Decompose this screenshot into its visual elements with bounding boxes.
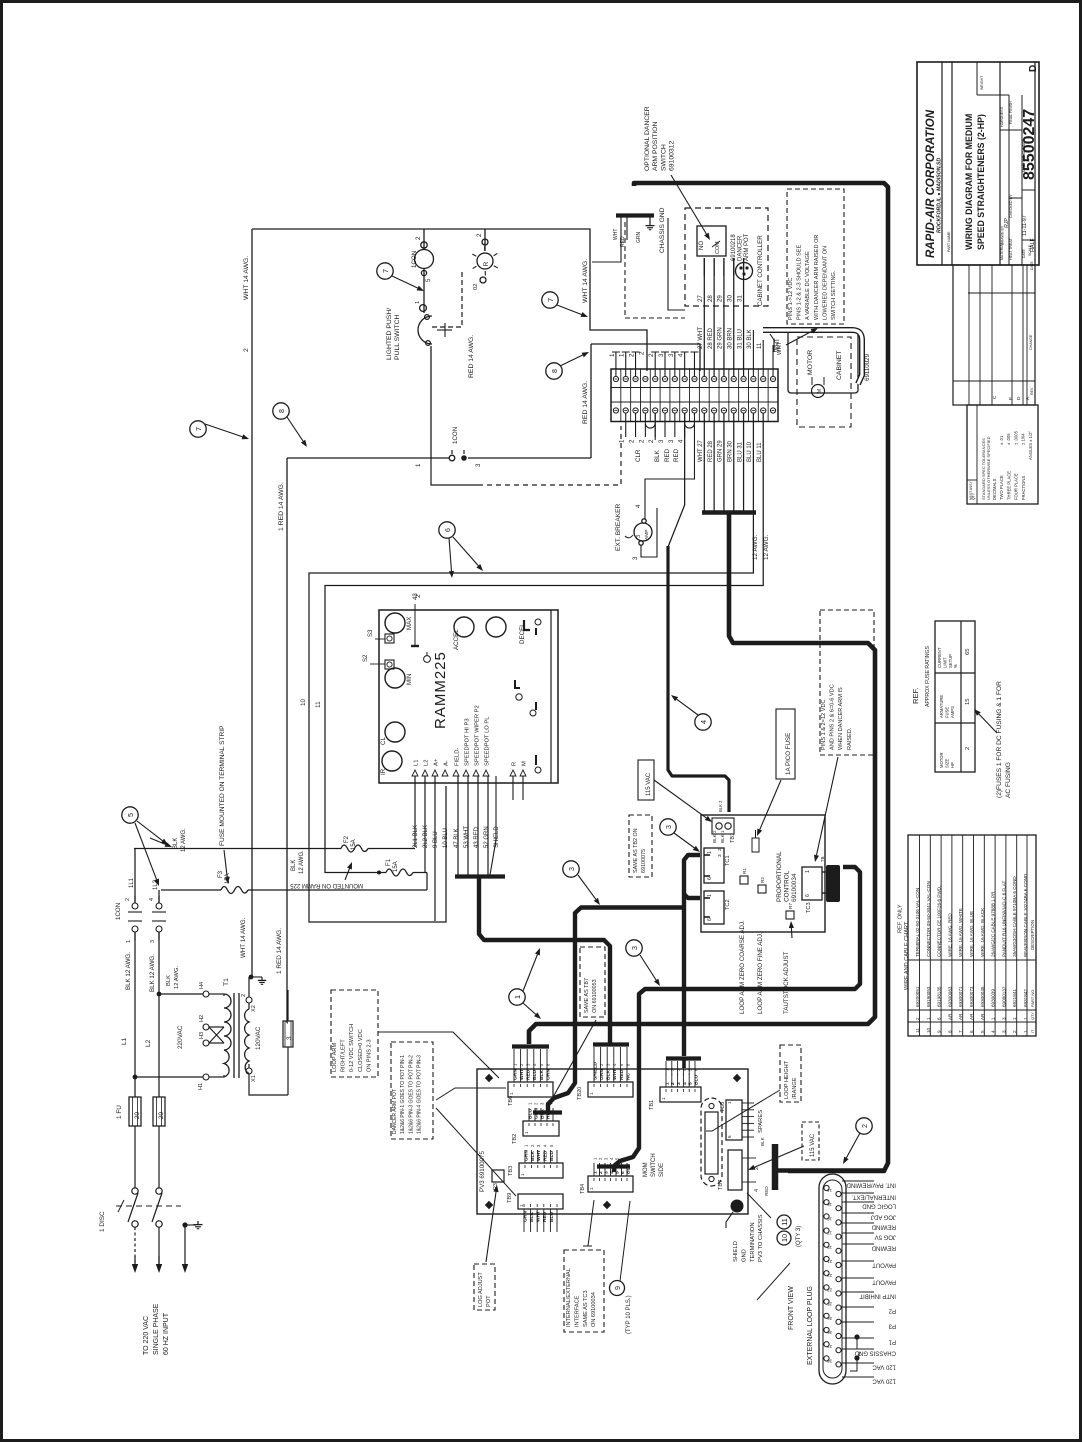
connector TC1 <box>704 848 724 883</box>
svg-text:3: 3 <box>567 867 576 871</box>
dashed line chassis to cabinet box <box>625 222 685 318</box>
svg-text:OPTIONAL DANCER: OPTIONAL DANCER <box>644 106 651 171</box>
svg-text:120 VAC: 120 VAC <box>872 1364 896 1370</box>
svg-text:PINS 1->12 VDC: PINS 1->12 VDC <box>788 278 794 320</box>
leader TB7 to balloons <box>747 1193 771 1218</box>
svg-text:SINGLE PHASE: SINGLE PHASE <box>153 1303 160 1355</box>
fuse holder on prop control <box>752 838 759 852</box>
resistor R7 on prop control <box>786 911 794 919</box>
svg-text:DESCRIPTION: DESCRIPTION <box>1030 920 1035 950</box>
svg-text:14: 14 <box>827 1188 832 1193</box>
svg-text:DATE: DATE <box>1030 260 1034 270</box>
wire RED from bus stub <box>626 217 628 240</box>
svg-text:BLK: BLK <box>530 1150 536 1161</box>
svg-text:1: 1 <box>707 894 713 897</box>
svg-text:RED 28: RED 28 <box>708 440 714 462</box>
cable chassis bus to motor/loop (right outer cable) <box>634 183 888 1171</box>
balloon 8 right <box>546 363 562 379</box>
cable shield run to TB20 <box>479 878 610 1043</box>
svg-text:BLU 31: BLU 31 <box>737 441 743 462</box>
terminal circles TS1 bottom row <box>613 408 618 413</box>
svg-text:2: 2 <box>629 353 636 357</box>
svg-text:M: M <box>817 388 823 393</box>
leader front view <box>757 1263 790 1300</box>
svg-text:BLK: BLK <box>654 449 661 462</box>
svg-text:GRN: GRN <box>523 1150 529 1161</box>
svg-text:MOTOR: MOTOR <box>807 350 814 375</box>
svg-text:1: 1 <box>609 353 616 357</box>
svg-text:ANGLES ± 1/2°: ANGLES ± 1/2° <box>1028 431 1033 460</box>
circuit breaker EXT BREAKER 3 AMP <box>634 523 652 541</box>
title block part name cell <box>951 62 953 265</box>
svg-text:EXT. BREAKER: EXT. BREAKER <box>615 503 622 551</box>
wires above terminal strip cols 1-9 <box>615 352 617 376</box>
svg-text:4: 4 <box>754 1189 760 1192</box>
svg-text:P2: P2 <box>888 1308 896 1314</box>
svg-text:TB1: TB1 <box>649 1100 655 1110</box>
dashed chassis tie from switch <box>431 458 478 485</box>
svg-text:5: 5 <box>425 278 432 282</box>
terminal block TB6 <box>508 1082 553 1097</box>
svg-text:1&2&6 PIN-4 GOES TO POT PIN-3: 1&2&6 PIN-4 GOES TO POT PIN-3 <box>417 1055 423 1134</box>
svg-text:TC3: TC3 <box>806 902 812 913</box>
motor cable from strip (tube) <box>763 330 862 384</box>
terminal block SPARES <box>726 1100 742 1140</box>
svg-text:TB3: TB3 <box>508 1166 514 1176</box>
dashed note box PINS 1->12 VDC <box>787 189 844 324</box>
arrow from note to F2 <box>345 869 349 880</box>
svg-text:1: 1 <box>805 870 811 873</box>
wire col10-14 down to cable bar <box>703 413 705 511</box>
svg-text:F1: F1 <box>386 858 392 866</box>
terminal TB1 on prop control <box>712 818 734 834</box>
svg-text:INTERNAL/EXTERNAL: INTERNAL/EXTERNAL <box>566 1268 572 1327</box>
svg-text:6: 6 <box>727 1135 732 1138</box>
svg-text:10 BLU: 10 BLU <box>443 828 449 848</box>
svg-text:A-: A- <box>444 760 450 766</box>
material heat-treat cells <box>999 62 1001 265</box>
loop plug pin holes and numbers <box>824 1185 829 1190</box>
svg-text:11-11-97: 11-11-97 <box>1022 215 1028 236</box>
svg-text:NC: NC <box>625 1072 631 1080</box>
svg-text:RED: RED <box>545 1108 551 1119</box>
svg-text:1L1: 1L1 <box>129 877 135 888</box>
svg-text:23: 23 <box>827 1287 832 1292</box>
svg-text:WHEN DANCER ARM IS: WHEN DANCER ARM IS <box>838 687 844 750</box>
svg-text:SIZE: SIZE <box>944 758 949 768</box>
svg-text:ON PINS 2-3: ON PINS 2-3 <box>366 1039 372 1072</box>
svg-text:8: 8 <box>277 409 286 413</box>
svg-text:SWITCH: SWITCH <box>660 144 667 171</box>
svg-text:SWITCH SETTING.: SWITCH SETTING. <box>831 270 837 320</box>
svg-text:WIRING DIAGRAM FOR MEDIUM: WIRING DIAGRAM FOR MEDIUM <box>964 114 974 250</box>
svg-text:REWIND: REWIND <box>871 1224 896 1230</box>
svg-text:± .0005: ± .0005 <box>1013 430 1018 445</box>
junction L2 to transformer H4 <box>157 992 162 997</box>
svg-text:1: 1 <box>520 1173 525 1176</box>
svg-text:BLU: BLU <box>549 1211 555 1222</box>
svg-text:CABINET: CABINET <box>836 351 843 380</box>
dashed note PINS 1&2=12VDC dancer <box>820 610 874 755</box>
motor enclosure box <box>788 331 858 393</box>
leader TB7-note to TB2 cable <box>550 1020 596 1102</box>
svg-text:(2)FUSES 1 FOR DC FUSING & 1 F: (2)FUSES 1 FOR DC FUSING & 1 FOR <box>996 681 1003 798</box>
svg-text:22: 22 <box>827 1273 832 1278</box>
loop plug pin leader lines and labels <box>842 1180 874 1182</box>
svg-text:1: 1 <box>661 1097 666 1100</box>
wire 11 to 2L2 with fuse F1 <box>325 872 386 874</box>
label 115 VAC boxed upper <box>638 760 654 800</box>
svg-text:H3: H3 <box>199 1032 205 1039</box>
svg-text:1L2: 1L2 <box>153 879 159 890</box>
svg-text:31 BLU: 31 BLU <box>737 329 743 349</box>
svg-text:LOOP HEIGHT: LOOP HEIGHT <box>784 1060 790 1099</box>
TC3 cable connector bar <box>826 865 840 902</box>
svg-text:R: R <box>512 762 518 766</box>
svg-text:D: D <box>1016 396 1022 400</box>
svg-text:WHT 14 AWG.: WHT 14 AWG. <box>243 256 250 300</box>
svg-text:9: 9 <box>613 1286 622 1290</box>
dashed link lamp R to switch <box>432 272 462 327</box>
svg-text:6: 6 <box>620 1171 626 1174</box>
svg-text:1: 1 <box>619 353 626 357</box>
balloon 3 lower <box>626 940 642 956</box>
svg-text:WHT 14 AWG.: WHT 14 AWG. <box>240 917 247 958</box>
svg-text:3: 3 <box>658 353 665 357</box>
shield ground dot <box>731 1200 744 1213</box>
svg-text:BLU: BLU <box>527 1108 533 1119</box>
balloon 5 with leaders <box>122 807 138 823</box>
svg-text:BLU: BLU <box>549 1150 555 1161</box>
svg-text:RED 14 AWG.: RED 14 AWG. <box>468 335 475 378</box>
loop plug bottom jumpers <box>854 1334 859 1339</box>
svg-text:IR: IR <box>380 768 387 775</box>
svg-text:CL: CL <box>380 737 387 745</box>
svg-text:1: 1 <box>519 1204 524 1207</box>
terminal block TB20 <box>588 1082 633 1097</box>
svg-text:1CON: 1CON <box>411 251 418 268</box>
svg-text:15A: 15A <box>351 839 357 850</box>
svg-text:ARM POT: ARM POT <box>744 233 750 261</box>
svg-text:BLU 11: BLU 11 <box>757 442 763 462</box>
svg-text:19: 19 <box>827 1245 832 1250</box>
cable prop-control to board TB2 <box>548 908 684 1113</box>
leader tautstock to R7 <box>790 928 793 938</box>
wire L2 feed with fuse F3 <box>161 889 221 891</box>
svg-text:29 GRN: 29 GRN <box>718 327 724 349</box>
external loop plug connector body <box>819 1174 846 1384</box>
disconnect switch 1 DISC <box>132 1188 138 1194</box>
svg-text:PART NAME: PART NAME <box>947 231 951 252</box>
leader fuses note <box>979 714 997 733</box>
svg-text:TB9: TB9 <box>507 1193 513 1203</box>
svg-text:69100075: 69100075 <box>641 849 647 873</box>
svg-text:AMP: AMP <box>644 530 650 540</box>
svg-text:TWO PLACE: TWO PLACE <box>999 475 1004 500</box>
dashed cabinet box at motor <box>797 337 851 427</box>
svg-text:1 RED 14 AWG.: 1 RED 14 AWG. <box>278 482 285 531</box>
svg-text:EXTERNAL LOOP PLUG: EXTERNAL LOOP PLUG <box>807 1286 814 1365</box>
leader 115VAC lower <box>754 1146 804 1167</box>
svg-text:3: 3 <box>658 439 665 443</box>
svg-text:HP: HP <box>950 762 955 768</box>
svg-text:PINS 1-2 & 2-3 SHOULD SEE: PINS 1-2 & 2-3 SHOULD SEE <box>797 244 803 320</box>
transformer core <box>233 993 235 1078</box>
resistor R2 on prop control <box>758 885 766 893</box>
svg-text:26: 26 <box>827 1316 832 1321</box>
svg-text:3: 3 <box>668 353 675 357</box>
balloon 4 with leader <box>695 714 711 730</box>
svg-text:TERMINATION: TERMINATION <box>750 1222 756 1262</box>
svg-text:2: 2 <box>858 1350 861 1356</box>
svg-text:GRN: GRN <box>522 1211 528 1222</box>
revision history strip <box>953 265 1035 405</box>
fuse ratings table <box>935 621 975 772</box>
label 115 VAC boxed lower <box>802 1122 819 1160</box>
terminal block TB4 <box>588 1176 633 1192</box>
svg-text:FINAL FINISH: FINAL FINISH <box>1009 101 1013 124</box>
svg-text:FOUR PLACE: FOUR PLACE <box>1014 473 1019 500</box>
fuse 1FU pole L1 <box>129 1097 141 1126</box>
svg-text:HARDNESS: HARDNESS <box>1000 106 1004 127</box>
leader 115VAC to TB1 <box>654 780 706 818</box>
proportional control board outline <box>701 815 825 932</box>
svg-text:POT: POT <box>486 1295 492 1307</box>
svg-text:2: 2 <box>717 848 723 851</box>
svg-text:2: 2 <box>241 994 247 997</box>
contact 1CON pole L2 <box>152 903 166 932</box>
wire 2 WHT left vertical to transformer <box>251 229 253 977</box>
svg-text:DANCER ARM POT: DANCER ARM POT <box>392 1089 398 1134</box>
balloon 3 at TB1 <box>660 819 676 835</box>
svg-text:69100034: 69100034 <box>791 873 798 902</box>
connector dancer arm pot (3-pin) <box>736 263 753 280</box>
svg-text:WHT: WHT <box>777 341 783 355</box>
cable shield bar under RAMM <box>455 874 505 878</box>
wire from breaker bottom <box>641 508 657 557</box>
balloon 6 with leaders to wires 10/11 <box>439 522 455 538</box>
svg-text:TB2: TB2 <box>512 1134 518 1144</box>
svg-text:2: 2 <box>629 439 636 443</box>
pot ACCEL circle pair <box>454 617 474 637</box>
wire 1 RED joins fuse3 wire <box>287 1022 288 1024</box>
date scale cells <box>1022 239 1035 241</box>
svg-text:43: 43 <box>413 593 419 600</box>
wire col8 down with diagonal to DC cable <box>668 413 685 547</box>
svg-text:WHT: WHT <box>612 1069 618 1080</box>
svg-text:WHT: WHT <box>613 229 619 240</box>
svg-text:WHT 27: WHT 27 <box>698 439 704 462</box>
svg-text:SAME AS TC3: SAME AS TC3 <box>583 1290 589 1327</box>
wire 1 RED 14 AWG vertical <box>286 458 288 1023</box>
svg-text:SIDE: SIDE <box>659 1163 665 1177</box>
pilot light R with rays <box>477 253 493 269</box>
svg-text:65: 65 <box>965 649 971 655</box>
wire L2 vertical <box>158 890 160 1097</box>
wire col5 down <box>654 413 656 440</box>
wire WHT from bus <box>592 217 621 262</box>
svg-text:R7: R7 <box>788 903 793 909</box>
svg-text:SPEEDPOT WIPER P2: SPEEDPOT WIPER P2 <box>475 705 481 766</box>
shield bundle wires into shield bar <box>457 776 459 875</box>
svg-text:115 VAC: 115 VAC <box>810 1133 816 1157</box>
svg-text:9 BLU: 9 BLU <box>433 831 439 848</box>
svg-text:PAVOUT: PAVOUT <box>872 1262 896 1268</box>
svg-text:1CON: 1CON <box>452 427 459 444</box>
svg-text:LIGHTED PUSH/: LIGHTED PUSH/ <box>386 308 393 360</box>
arrow on L1 feed <box>150 838 166 844</box>
svg-text:CHASSIS GND: CHASSIS GND <box>659 207 666 253</box>
note box DANCER ARM POT pins <box>391 1042 433 1139</box>
svg-text:TB20: TB20 <box>577 1087 583 1100</box>
svg-text:MAX: MAX <box>406 617 413 630</box>
svg-text:15: 15 <box>827 1202 832 1207</box>
junction L1 to transformer H1 <box>133 1075 138 1080</box>
svg-text:P1: P1 <box>888 1339 896 1345</box>
svg-text:NO: NO <box>699 241 705 250</box>
svg-text:GRN 29: GRN 29 <box>718 440 724 462</box>
svg-text:TB1: TB1 <box>730 833 736 843</box>
svg-text:BLU 10: BLU 10 <box>747 441 753 462</box>
svg-text:L2: L2 <box>145 1039 152 1047</box>
leader loop height note to TB1 board <box>706 1090 780 1131</box>
svg-text:WHT: WHT <box>519 1069 525 1080</box>
svg-text:TC2: TC2 <box>725 899 731 910</box>
svg-text:16: 16 <box>827 1216 832 1221</box>
ground symbol chassis <box>649 217 651 222</box>
svg-text:INTERFACE: INTERFACE <box>574 1295 580 1327</box>
svg-text:11: 11 <box>757 342 763 349</box>
svg-text:28 RED: 28 RED <box>708 327 714 349</box>
svg-text:2: 2 <box>125 898 131 901</box>
svg-text:BLK: BLK <box>760 1136 765 1146</box>
svg-text:BLK: BLK <box>166 975 172 986</box>
svg-text:21: 21 <box>827 1259 832 1264</box>
svg-text:6: 6 <box>805 894 811 897</box>
svg-text:SHIELD: SHIELD <box>494 826 500 848</box>
drawn by checked by cells <box>1021 95 1023 265</box>
svg-text:BLK 2: BLK 2 <box>718 800 723 812</box>
svg-text:(TYP 10 PLS.): (TYP 10 PLS.) <box>626 1295 632 1334</box>
svg-text:A+: A+ <box>434 758 440 766</box>
svg-text:TB8: TB8 <box>720 1102 726 1112</box>
connector TC2 <box>704 891 724 924</box>
svg-text:38: 38 <box>827 1358 832 1363</box>
svg-text:A VARIABLE DC VOLTAGE: A VARIABLE DC VOLTAGE <box>805 251 811 320</box>
svg-text:GRN: GRN <box>533 1108 539 1119</box>
svg-text:2: 2 <box>648 439 655 443</box>
svg-text:2L1 BLK: 2L1 BLK <box>413 825 419 848</box>
pot IR <box>385 722 405 742</box>
svg-text:RAPID-AIR CORPORATION: RAPID-AIR CORPORATION <box>925 109 937 258</box>
svg-text:4: 4 <box>682 1082 688 1085</box>
terminal circles TS1 top row <box>613 376 618 381</box>
resistor R1 on prop control <box>740 876 748 884</box>
svg-text:12 AWG.: 12 AWG. <box>752 534 759 560</box>
svg-text:TB: TB <box>820 856 825 862</box>
terminal strip TS1 <box>611 369 778 422</box>
svg-text:GRN: GRN <box>636 232 642 244</box>
svg-text:3: 3 <box>603 1171 609 1174</box>
svg-text:47 BLK: 47 BLK <box>454 828 460 848</box>
svg-text:3: 3 <box>475 463 482 467</box>
svg-text:INTERNAL/EXT.: INTERNAL/EXT. <box>852 1194 896 1200</box>
svg-text:RED: RED <box>619 1069 625 1080</box>
pot CL <box>382 751 402 771</box>
svg-text:7: 7 <box>546 298 555 302</box>
svg-text:WIRE AND CABLE CHART: WIRE AND CABLE CHART <box>904 921 910 990</box>
svg-text:4: 4 <box>678 353 685 357</box>
svg-text:12 AWG.: 12 AWG. <box>174 966 180 989</box>
svg-text:SETUP: SETUP <box>948 654 953 668</box>
svg-text:TAUTSTOCK ADJUST: TAUTSTOCK ADJUST <box>783 951 790 1014</box>
leader fuse note to F3 <box>224 850 227 877</box>
note box LOOP HEIGHT/RANGE <box>780 1045 801 1102</box>
svg-text:BLU: BLU <box>532 1069 538 1080</box>
svg-text:H1: H1 <box>198 1083 204 1090</box>
svg-text:2: 2 <box>415 236 422 240</box>
note 1A PICO FUSE <box>776 709 795 779</box>
svg-text:PROPORTIONAL: PROPORTIONAL <box>776 851 783 902</box>
svg-text:PV3 TO CHASSIS: PV3 TO CHASSIS <box>758 1214 764 1262</box>
svg-text:ARM POSITION: ARM POSITION <box>652 121 659 171</box>
wire L1 vertical <box>134 848 136 1097</box>
svg-text:BLK: BLK <box>291 860 297 871</box>
balloon 3 left of prop control <box>563 861 579 877</box>
svg-text:MIN: MIN <box>406 674 413 685</box>
svg-text:15A: 15A <box>393 861 399 872</box>
svg-text:TC1: TC1 <box>725 855 731 866</box>
svg-text:2: 2 <box>243 348 250 352</box>
svg-text:LOWERED DEPENDANT ON: LOWERED DEPENDANT ON <box>822 246 828 320</box>
jumper arcs below strip <box>645 424 655 428</box>
svg-text:3: 3 <box>664 825 673 829</box>
terminal block TB1 on board <box>660 1087 701 1102</box>
svg-text:4: 4 <box>678 439 685 443</box>
svg-text:4: 4 <box>635 504 642 508</box>
svg-text:3: 3 <box>668 439 675 443</box>
svg-text:120VAC: 120VAC <box>255 1026 262 1050</box>
svg-text:LOG ADJUST: LOG ADJUST <box>478 1272 484 1307</box>
svg-text:12 AWG.: 12 AWG. <box>299 850 305 874</box>
svg-text:30 BLK: 30 BLK <box>747 329 753 349</box>
svg-text:1: 1 <box>592 1171 598 1174</box>
svg-text:TB4: TB4 <box>580 1184 586 1194</box>
RAMM pin wires down <box>414 776 416 847</box>
svg-text:29: 29 <box>717 295 724 302</box>
svg-text:2: 2 <box>670 1082 676 1085</box>
svg-text:LOOP ARM: LOOP ARM <box>332 1043 338 1072</box>
svg-text:/RANGE: /RANGE <box>792 1077 798 1099</box>
svg-text:SAME AS TB2 ON: SAME AS TB2 ON <box>633 828 639 873</box>
wire RED jog to strip <box>591 344 700 371</box>
svg-text:GND: GND <box>741 1249 747 1262</box>
svg-text:DANCER: DANCER <box>738 235 744 261</box>
svg-text:X2: X2 <box>251 1005 257 1012</box>
svg-text:1: 1 <box>415 463 422 467</box>
wires below terminal strip + labels <box>625 413 627 437</box>
svg-text:ROCKFORD,IL ● MADISON,SD: ROCKFORD,IL ● MADISON,SD <box>937 158 943 233</box>
title block outline <box>917 62 1039 265</box>
RAMM pin arrows and labels <box>412 770 418 776</box>
svg-text:UNLESS OTHERWISE SPECIFIED: UNLESS OTHERWISE SPECIFIED <box>986 436 991 500</box>
svg-text:2: 2 <box>476 233 483 237</box>
leaders from dancer-pot note to board blocks <box>436 1088 506 1100</box>
wire 10 BLU long run to RAMM <box>309 413 753 922</box>
svg-text:FRACTIONS: FRACTIONS <box>1021 476 1026 500</box>
svg-text:1 DISC: 1 DISC <box>99 1211 106 1232</box>
svg-text:02: 02 <box>473 284 479 290</box>
